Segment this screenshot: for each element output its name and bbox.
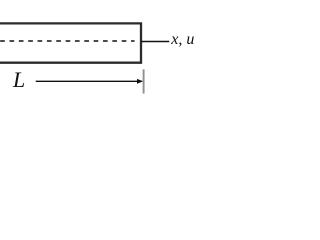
- svg-text:x,: x,: [170, 31, 182, 48]
- axis line (solid, to label): [141, 41, 169, 43]
- rod outline (top edge, right edge, bottom edge): [0, 23, 141, 62]
- dimension line L: [36, 80, 139, 82]
- dashed centerline: [0, 40, 134, 42]
- svg-text:L: L: [12, 67, 25, 92]
- extension line (gray): [143, 69, 145, 93]
- arrowhead: [137, 79, 143, 84]
- svg-text:u: u: [186, 31, 194, 48]
